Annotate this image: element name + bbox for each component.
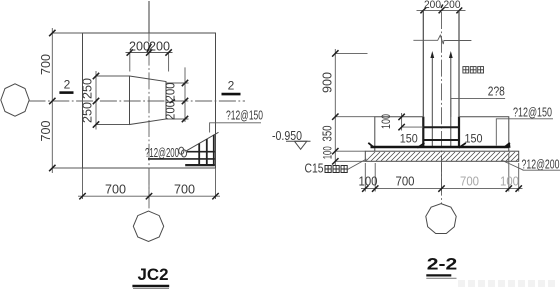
dim extension top (52, 32, 82, 34)
svg-text:150: 150 (400, 134, 418, 146)
ticks left dim stack (332, 50, 338, 164)
svg-text:?12@200: ?12@200 (522, 156, 560, 171)
extension upper (166, 82, 189, 84)
cushion slab outline (365, 151, 518, 161)
svg-text:100: 100 (359, 175, 378, 189)
pier trapezoid (130, 76, 167, 125)
axis bubble right drawing (426, 204, 456, 234)
column rebar left with arrowhead (431, 57, 433, 147)
leader 2phi8 (451, 99, 505, 117)
svg-text:2-2: 2-2 (427, 255, 458, 274)
extension right (168, 53, 170, 72)
column right face (458, 10, 460, 116)
corner rebar detail: bottom bar (185, 164, 215, 166)
axis bubble bottom (133, 211, 163, 241)
extension lower (166, 118, 189, 120)
stirrup bars 2phi8 in column (423, 126, 459, 128)
column left face (422, 10, 424, 116)
vertical centerline axis (148, 1, 150, 212)
dim 250/250 inner vertical: dim line (95, 71, 97, 130)
bottom dim line (361, 188, 523, 190)
extension slab bottom (335, 160, 365, 162)
corner rebar detail: hook loops (179, 147, 184, 154)
svg-text:700: 700 (39, 120, 53, 141)
svg-text:200: 200 (164, 82, 178, 101)
mesh tick at column left face (417, 143, 424, 148)
svg-text:100: 100 (379, 114, 393, 129)
extension top to pier corner (96, 75, 130, 77)
svg-text:?12@150: ?12@150 (513, 105, 552, 120)
svg-text:C15: C15 (305, 162, 324, 176)
separator slash column dim (441, 5, 443, 9)
svg-text:700: 700 (396, 175, 415, 189)
centerline solid segment above square (148, 1, 150, 33)
title underline thick (426, 274, 451, 276)
corner rebar detail: horizontal bars (148, 152, 215, 159)
svg-text:700: 700 (39, 54, 53, 75)
title underline thin (426, 277, 456, 279)
footing outline square (83, 33, 216, 168)
ticks 100 dim (398, 114, 404, 131)
dim 700/700 bottom: extensions (83, 168, 216, 199)
extension slab top (335, 150, 365, 152)
ticks bottom dims (362, 185, 522, 191)
dim 200/200 top: dim line (126, 52, 173, 54)
mesh bar right hook (504, 143, 510, 148)
svg-text:250: 250 (81, 78, 95, 99)
footing pad outline (375, 117, 509, 152)
horizontal centerline axis (29, 100, 246, 102)
title underline thick (132, 285, 169, 287)
corner rebar detail: bent bar diagonal (186, 132, 219, 151)
svg-text:700: 700 (105, 183, 126, 197)
svg-text:250: 250 (81, 102, 95, 123)
C15 CJK glyphs (325, 166, 347, 173)
break line through column (413, 35, 471, 44)
svg-text:?12@200: ?12@200 (145, 145, 179, 160)
svg-text:700: 700 (174, 183, 195, 197)
column centerline axis (441, 12, 443, 204)
axis bubble left (1, 84, 29, 116)
svg-text:200: 200 (444, 0, 461, 11)
cushion slab hatch (366, 152, 519, 161)
title underline thin (133, 288, 169, 289)
ticks right dim (182, 80, 188, 122)
corner rebar detail: vertical bars (199, 135, 214, 165)
ticks top dim (127, 49, 172, 55)
leader phi12@150 (496, 119, 553, 146)
svg-text:100: 100 (500, 175, 519, 189)
footing mesh bar thick (371, 146, 509, 148)
ticks 250 dim (93, 73, 99, 128)
svg-text:200: 200 (149, 40, 170, 54)
extension ground level (335, 52, 367, 54)
ticks bottom dim (79, 193, 218, 199)
section mark 2 left: thick line (59, 91, 73, 94)
svg-text:200: 200 (164, 101, 178, 120)
svg-text:2: 2 (64, 78, 71, 92)
leader phi12@200 (502, 160, 560, 170)
column label (CJK glyphs) (463, 67, 484, 73)
rebar label phi12@150 leader (210, 123, 261, 133)
svg-text:JC2: JC2 (138, 265, 169, 284)
svg-text:900: 900 (321, 72, 335, 93)
svg-text:2?8: 2?8 (488, 83, 505, 98)
dim 700/700 left vertical: dim line (51, 28, 53, 173)
level mark symbol (295, 141, 307, 149)
section mark 2 right: thick line (222, 93, 241, 96)
dim 200/200 column top: dim line (417, 9, 466, 11)
separator slash top dim (147, 44, 151, 52)
level mark line (286, 140, 311, 142)
separator slash right dim texts (170, 100, 176, 104)
svg-text:350: 350 (321, 125, 335, 141)
dim line bottom (78, 195, 220, 197)
svg-text:100: 100 (321, 146, 335, 159)
extension pad top (335, 116, 375, 118)
ticks column dim (420, 8, 462, 14)
dim extension bottom (52, 167, 82, 169)
ticks left dim (49, 30, 55, 171)
column rebar right with arrowhead (450, 57, 452, 147)
svg-text:200: 200 (424, 0, 441, 11)
svg-text:2: 2 (228, 79, 235, 93)
extension at stirrup level (402, 126, 424, 128)
svg-text:150: 150 (465, 134, 483, 146)
dim 100 stirrup: dim line (401, 113, 403, 131)
extension left (129, 53, 131, 72)
bottom dims: extensions (365, 153, 518, 192)
dim 200/200 right side: dim line (184, 67, 186, 122)
svg-text:?12@150: ?12@150 (226, 108, 263, 123)
leader C15 (348, 159, 367, 170)
extension bottom to pier corner (96, 124, 130, 126)
mesh tick at column right face (459, 143, 466, 148)
faint watermark bottom right (458, 280, 555, 287)
svg-text:700: 700 (460, 175, 479, 189)
left dim stack: dim line (334, 49, 336, 165)
mesh bar left hook (368, 143, 374, 148)
